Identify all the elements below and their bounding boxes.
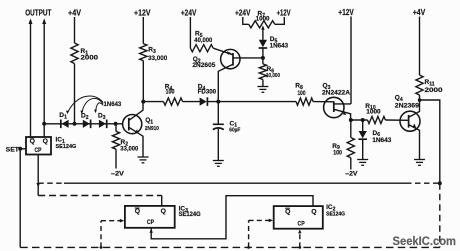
svg-text:+12V: +12V <box>277 9 291 18</box>
svg-text:100: 100 <box>333 150 342 156</box>
svg-text:+4V: +4V <box>413 8 426 17</box>
svg-text:1N643: 1N643 <box>270 42 289 49</box>
svg-text:Q: Q <box>161 208 166 215</box>
svg-text:+12V: +12V <box>338 8 354 17</box>
svg-text:–2V: –2V <box>111 171 125 178</box>
svg-text:D1: D1 <box>59 112 67 120</box>
svg-text:Q: Q <box>135 208 140 215</box>
svg-text:2N2605: 2N2605 <box>192 62 215 69</box>
svg-text:100: 100 <box>298 91 307 97</box>
svg-text:100: 100 <box>166 90 176 96</box>
svg-text:Q1: Q1 <box>145 117 153 125</box>
svg-text:2000: 2000 <box>81 55 99 62</box>
svg-text:CP: CP <box>147 219 155 226</box>
svg-text:Q: Q <box>43 138 48 145</box>
svg-text:SeekIC.com: SeekIC.com <box>393 236 457 248</box>
svg-text:SET: SET <box>6 146 19 153</box>
svg-text:1000: 1000 <box>366 109 381 115</box>
svg-text:R8: R8 <box>295 83 303 91</box>
svg-text:2N2369: 2N2369 <box>395 102 420 109</box>
svg-text:1N643: 1N643 <box>104 101 122 108</box>
svg-text:+24V: +24V <box>235 9 251 18</box>
svg-text:D2: D2 <box>81 113 89 121</box>
svg-text:D3: D3 <box>98 113 106 121</box>
svg-text:Q: Q <box>30 138 35 145</box>
svg-text:SE124G: SE124G <box>179 211 201 218</box>
svg-text:OUTPUT: OUTPUT <box>25 9 51 18</box>
svg-text:SE124G: SE124G <box>326 211 345 217</box>
svg-text:33,000: 33,000 <box>148 55 168 62</box>
svg-text:1N643: 1N643 <box>372 137 391 144</box>
svg-text:FD300: FD300 <box>198 90 217 96</box>
svg-text:R3: R3 <box>148 46 156 54</box>
svg-text:10,000: 10,000 <box>266 73 280 79</box>
svg-text:+12V: +12V <box>134 9 151 18</box>
svg-text:+24V: +24V <box>181 9 197 18</box>
svg-text:–2V: –2V <box>345 170 358 177</box>
svg-text:SE124G: SE124G <box>56 144 77 150</box>
svg-text:Q: Q <box>285 208 290 215</box>
svg-text:Q: Q <box>311 208 316 215</box>
svg-text:CP: CP <box>35 147 42 154</box>
svg-text:40,000: 40,000 <box>194 37 212 44</box>
svg-text:1000: 1000 <box>256 16 270 22</box>
svg-text:+4V: +4V <box>68 9 82 18</box>
svg-text:2000: 2000 <box>425 87 443 94</box>
svg-text:2N2422A: 2N2422A <box>322 90 350 97</box>
svg-text:60µF: 60µF <box>229 127 240 133</box>
svg-text:33,000: 33,000 <box>120 146 138 153</box>
svg-text:CP: CP <box>298 220 306 227</box>
svg-text:2N910: 2N910 <box>145 126 159 132</box>
